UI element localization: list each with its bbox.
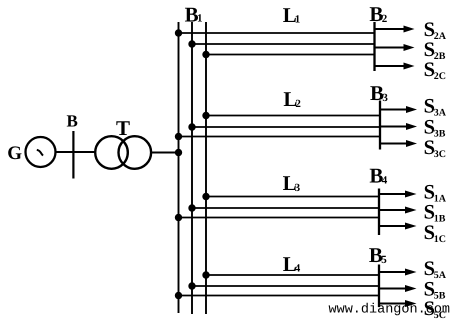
junction dot L2-A (202, 112, 209, 119)
breaker bar B3 (379, 101, 381, 150)
svg-text:T: T (116, 116, 130, 140)
label L3 (283, 171, 301, 195)
wire generator to transformer (56, 151, 96, 153)
arrow S1B (379, 207, 417, 214)
arrow S5A (379, 269, 417, 276)
breaker B (72, 131, 74, 179)
busbar B1 phase 2 vertical (191, 22, 193, 314)
svg-text:4: 4 (295, 263, 301, 275)
label S5C (424, 298, 446, 321)
feeder L1 wire C (206, 54, 375, 56)
feeder L3 wire A (206, 196, 379, 198)
label S3B (424, 117, 446, 140)
label L4 (283, 252, 301, 276)
svg-text:1: 1 (295, 13, 301, 25)
arrow S3B (380, 123, 417, 130)
arrow S1C (379, 223, 417, 230)
svg-text:3B: 3B (434, 129, 446, 140)
svg-text:3A: 3A (434, 107, 447, 118)
feeder L4 wire C (179, 295, 380, 297)
busbar B1 phase 1 vertical (178, 22, 180, 313)
arrow S3A (380, 106, 417, 113)
label S3C (424, 137, 446, 160)
label B2 (369, 2, 387, 26)
svg-text:2: 2 (295, 98, 301, 110)
feeder L1 wire B (192, 43, 375, 45)
label S2C (424, 59, 446, 82)
breaker bar B4 (378, 189, 380, 236)
junction dot L1-A (175, 29, 182, 36)
arrow S2A (375, 26, 415, 33)
svg-text:1A: 1A (434, 193, 447, 204)
junction dot L2-C (175, 133, 182, 140)
transformer T (95, 136, 151, 169)
svg-text:3C: 3C (434, 149, 446, 160)
svg-text:B: B (67, 112, 78, 131)
svg-text:G: G (7, 143, 22, 164)
label S1C (424, 222, 446, 245)
junction dot L3-A (202, 193, 209, 200)
svg-text:5B: 5B (434, 291, 446, 302)
label L2 (283, 87, 301, 111)
junction dot L4-C (175, 292, 182, 299)
label L1 (283, 3, 301, 27)
junction dot L1-B (188, 40, 195, 47)
feeder L1 wire A (179, 32, 375, 34)
svg-text:2A: 2A (434, 31, 447, 42)
label S5A (424, 258, 447, 281)
feeder L4 wire A (206, 274, 379, 276)
junction dot L4-B (188, 282, 195, 289)
junction dot L3-C (175, 214, 182, 221)
svg-text:2C: 2C (434, 71, 446, 82)
svg-text:1B: 1B (434, 214, 446, 225)
breaker bar B5 (378, 265, 380, 308)
generator G (26, 137, 56, 167)
busbar B1 phase 3 vertical (205, 22, 207, 314)
feeder L4 wire B (192, 285, 379, 287)
arrow S5B (379, 285, 417, 292)
breaker bar B2 (373, 22, 375, 71)
junction dot L2-B (188, 123, 195, 130)
svg-text:3: 3 (382, 92, 388, 104)
label S2B (424, 39, 446, 62)
wire transformer to busbar (151, 152, 178, 154)
svg-text:4: 4 (382, 175, 388, 187)
label S1A (424, 181, 447, 204)
junction dot L3-B (188, 204, 195, 211)
arrow S5C (379, 300, 417, 307)
feeder L2 wire A (206, 115, 380, 117)
label B5 (369, 243, 387, 267)
junction dot L4-A (202, 271, 209, 278)
label S3A (424, 95, 447, 118)
feeder L3 wire C (179, 217, 380, 219)
feeder L3 wire B (192, 207, 379, 209)
label S2A (424, 19, 447, 42)
label S1B (424, 202, 446, 225)
label B1 (185, 2, 203, 26)
svg-text:2B: 2B (434, 51, 446, 62)
arrow S3C (380, 140, 417, 147)
svg-text:3: 3 (295, 182, 301, 194)
junction dot main wire to busbar phase 1 (175, 149, 182, 156)
label B3 (370, 81, 388, 105)
arrow S2B (375, 44, 415, 51)
junction dot L1-C (202, 51, 209, 58)
feeder L2 wire B (192, 126, 380, 128)
svg-text:5A: 5A (434, 270, 447, 281)
arrow S1A (379, 191, 417, 198)
svg-text:1: 1 (197, 13, 203, 25)
svg-text:1C: 1C (434, 234, 446, 245)
label B4 (369, 164, 387, 188)
label S5B (424, 279, 446, 302)
svg-text:www.diangon.com: www.diangon.com (329, 303, 451, 318)
svg-text:5: 5 (381, 254, 387, 266)
arrow S2C (375, 63, 415, 70)
feeder L2 wire C (179, 136, 381, 138)
svg-text:2: 2 (382, 13, 388, 25)
